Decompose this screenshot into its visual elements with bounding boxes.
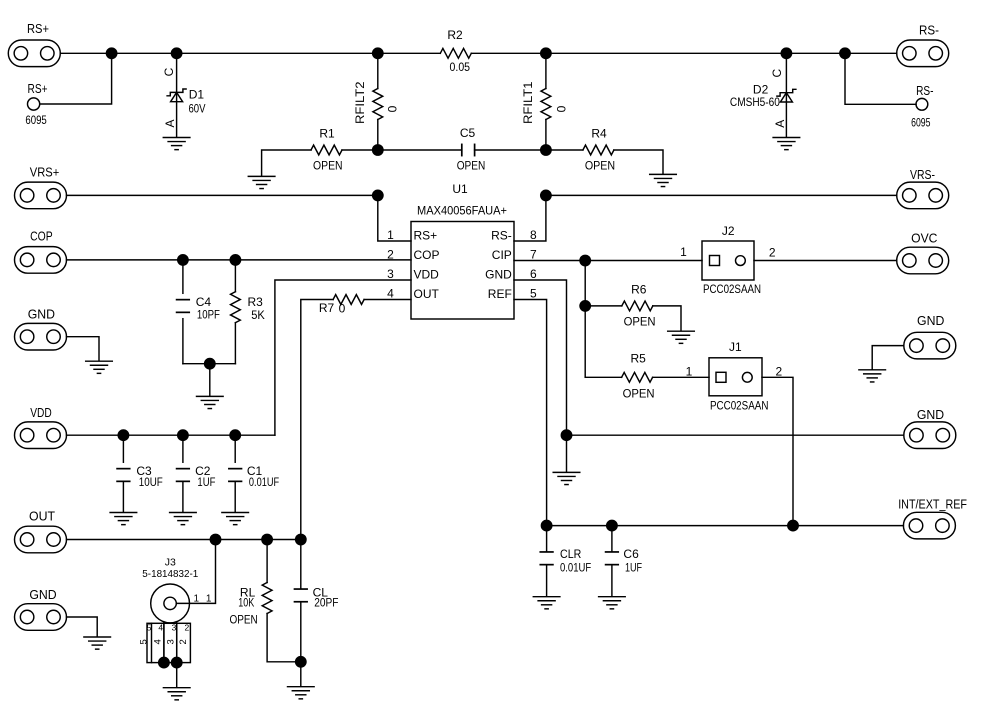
svg-text:10PF: 10PF — [197, 307, 220, 321]
svg-text:6095: 6095 — [25, 113, 47, 127]
svg-text:1: 1 — [686, 365, 693, 379]
svg-text:CIP: CIP — [492, 248, 512, 262]
svg-text:4: 4 — [387, 287, 394, 301]
svg-text:RS+: RS+ — [28, 82, 48, 96]
svg-text:COP: COP — [414, 248, 440, 262]
svg-text:4: 4 — [153, 639, 164, 644]
svg-text:GND: GND — [28, 308, 55, 322]
svg-text:3: 3 — [165, 639, 176, 644]
svg-text:5: 5 — [530, 287, 537, 301]
svg-text:R7: R7 — [319, 301, 335, 315]
svg-text:C5: C5 — [460, 126, 476, 140]
svg-text:D1: D1 — [189, 88, 205, 102]
svg-text:R1: R1 — [319, 127, 335, 141]
svg-text:VRS-: VRS- — [910, 168, 935, 182]
svg-text:GND: GND — [917, 408, 944, 422]
svg-text:R6: R6 — [631, 283, 647, 297]
svg-text:10K: 10K — [238, 596, 254, 610]
svg-text:R2: R2 — [447, 28, 463, 42]
svg-text:RS-: RS- — [916, 84, 933, 98]
svg-text:RS-: RS- — [491, 229, 512, 243]
svg-text:0: 0 — [386, 105, 400, 112]
svg-text:INT/EXT_REF: INT/EXT_REF — [898, 498, 967, 512]
svg-text:R3: R3 — [248, 295, 264, 309]
svg-text:GND: GND — [917, 314, 944, 328]
svg-text:R4: R4 — [591, 127, 607, 141]
svg-text:1: 1 — [387, 228, 394, 242]
svg-text:OUT: OUT — [29, 510, 55, 524]
svg-text:8: 8 — [530, 228, 537, 242]
svg-text:R5: R5 — [631, 352, 647, 366]
svg-text:1: 1 — [680, 245, 687, 259]
svg-text:J1: J1 — [729, 340, 742, 354]
svg-text:VRS+: VRS+ — [30, 166, 60, 180]
svg-text:C: C — [162, 67, 176, 76]
svg-text:0.05: 0.05 — [450, 60, 471, 74]
svg-text:CLR: CLR — [560, 547, 582, 561]
svg-text:RFILT2: RFILT2 — [353, 81, 367, 124]
svg-text:OPEN: OPEN — [313, 159, 343, 173]
svg-text:1UF: 1UF — [197, 475, 215, 489]
svg-text:GND: GND — [485, 268, 512, 282]
svg-text:0: 0 — [339, 302, 346, 316]
svg-text:PCC02SAAN: PCC02SAAN — [703, 282, 761, 296]
svg-text:VDD: VDD — [414, 268, 440, 282]
svg-text:5-1814832-1: 5-1814832-1 — [142, 568, 198, 580]
svg-text:RS+: RS+ — [27, 22, 49, 36]
svg-text:1: 1 — [206, 594, 212, 605]
svg-text:J3: J3 — [165, 556, 176, 568]
svg-text:GND: GND — [29, 588, 56, 602]
svg-text:OPEN: OPEN — [457, 159, 486, 173]
svg-text:OVC: OVC — [911, 232, 937, 246]
svg-text:4: 4 — [158, 622, 163, 632]
svg-text:60V: 60V — [189, 102, 206, 116]
svg-text:5: 5 — [147, 622, 152, 632]
svg-text:2: 2 — [185, 622, 190, 632]
svg-text:0: 0 — [555, 105, 569, 112]
svg-text:3: 3 — [172, 622, 177, 632]
svg-text:1UF: 1UF — [625, 560, 642, 574]
svg-text:REF: REF — [488, 287, 512, 301]
svg-text:6095: 6095 — [911, 115, 930, 129]
svg-text:RS-: RS- — [919, 24, 939, 38]
svg-text:OPEN: OPEN — [623, 387, 655, 401]
svg-text:20PF: 20PF — [314, 596, 338, 610]
svg-text:5K: 5K — [251, 308, 265, 322]
svg-text:A: A — [773, 120, 787, 128]
svg-text:2: 2 — [776, 365, 783, 379]
svg-text:5: 5 — [139, 639, 150, 644]
svg-text:OPEN: OPEN — [585, 159, 615, 173]
svg-text:OUT: OUT — [414, 287, 440, 301]
svg-text:10UF: 10UF — [139, 475, 163, 489]
svg-text:OPEN: OPEN — [229, 613, 257, 627]
svg-text:1: 1 — [194, 594, 200, 605]
svg-text:COP: COP — [30, 229, 53, 243]
svg-text:2: 2 — [387, 247, 394, 261]
svg-text:OPEN: OPEN — [624, 315, 656, 329]
svg-text:RFILT1: RFILT1 — [521, 81, 535, 124]
svg-text:RS+: RS+ — [414, 229, 438, 243]
svg-text:PCC02SAAN: PCC02SAAN — [710, 399, 769, 413]
svg-text:J2: J2 — [722, 224, 735, 238]
svg-text:0.01UF: 0.01UF — [560, 560, 591, 574]
svg-text:6: 6 — [530, 267, 537, 281]
svg-text:A: A — [163, 119, 177, 127]
svg-text:2: 2 — [769, 246, 776, 260]
svg-text:VDD: VDD — [30, 406, 52, 420]
svg-text:7: 7 — [530, 247, 537, 261]
svg-text:C: C — [770, 69, 784, 78]
svg-text:MAX40056FAUA+: MAX40056FAUA+ — [417, 203, 507, 217]
svg-text:C6: C6 — [623, 547, 639, 561]
svg-text:0.01UF: 0.01UF — [249, 475, 279, 489]
svg-text:2: 2 — [178, 639, 189, 644]
svg-text:U1: U1 — [452, 182, 468, 196]
svg-text:3: 3 — [387, 267, 394, 281]
svg-text:CMSH5-60: CMSH5-60 — [730, 95, 780, 109]
